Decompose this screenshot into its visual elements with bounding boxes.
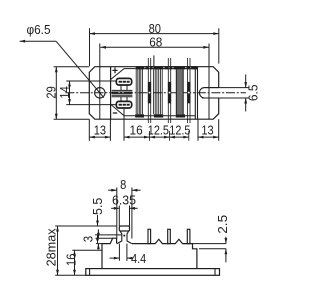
horizontal centerline (dash-dot) xyxy=(65,92,246,94)
faston terminal - (bottom tab) xyxy=(116,101,131,108)
baseplate (side view) xyxy=(86,269,220,276)
dimension 6.5 line xyxy=(244,74,247,111)
faston terminal + (top tab) xyxy=(116,78,131,85)
svg-text:6.5: 6.5 xyxy=(245,84,260,101)
svg-text:6.35: 6.35 xyxy=(112,192,136,207)
dimension 28max extension lines xyxy=(55,226,117,275)
dimension 4.4 line xyxy=(110,257,133,260)
molding seal blocks (bottom) xyxy=(135,114,185,117)
svg-text:8: 8 xyxy=(120,177,126,192)
dimension text 68 xyxy=(149,34,162,49)
molded body profile (side view) xyxy=(102,238,197,268)
bottom extension ticks xyxy=(89,108,218,141)
svg-text:14: 14 xyxy=(57,86,72,98)
svg-text:φ6.5: φ6.5 xyxy=(27,22,51,37)
housing inner top edge xyxy=(136,68,196,70)
dimension text 12.5 a xyxy=(148,122,169,137)
molded housing left edge xyxy=(110,67,112,120)
dimension 8 line xyxy=(108,189,141,192)
rib hatch band B xyxy=(153,69,162,114)
dimension 2.5 extension lines xyxy=(183,244,226,249)
pin 3 (side view) xyxy=(187,229,190,243)
dimension text 16 side xyxy=(63,254,78,266)
housing inner outline bottom-left diagonal xyxy=(111,104,136,115)
polarity mark + xyxy=(112,68,117,74)
dimension 3 line xyxy=(97,229,100,249)
dimension 28max line xyxy=(56,226,59,275)
rib band C (solid) xyxy=(176,69,183,114)
bottom dimension line 16/12.5/12.5 xyxy=(124,136,189,139)
pin 3 (top view) xyxy=(187,58,190,141)
dimension 5.5 extension lines xyxy=(95,234,122,236)
pin 2 (side view) xyxy=(168,229,171,243)
dimension 6.5 extension lines xyxy=(202,88,249,98)
housing inner bottom edge xyxy=(136,115,196,117)
dimension 29 extension lines xyxy=(54,67,90,120)
dimension 68 line xyxy=(100,46,208,49)
dimension text 13 right xyxy=(201,122,213,137)
module body outline (top view, chamfered plate) xyxy=(89,67,218,120)
pin 2 (top view) xyxy=(168,58,171,141)
right mounting slot (open, rounded end) xyxy=(199,88,218,98)
svg-text:28max: 28max xyxy=(43,228,58,266)
dimension 16 line xyxy=(73,250,76,275)
dimension text 6.5 xyxy=(245,84,260,101)
dimension 6.35 line xyxy=(111,207,138,210)
dimension text phi6.5 xyxy=(27,22,51,37)
dimension text 14 xyxy=(57,86,72,98)
dimension text 2.5 xyxy=(215,215,230,234)
svg-text:4.4: 4.4 xyxy=(131,251,146,266)
dimension 80 extension lines xyxy=(90,28,219,66)
svg-text:16: 16 xyxy=(130,122,143,137)
dimension 4.4 extension lines xyxy=(119,244,127,261)
svg-text:13: 13 xyxy=(201,122,213,137)
dimension text 5.5 xyxy=(90,198,105,215)
dimension 8 extension lines xyxy=(117,188,132,239)
svg-text:12.5: 12.5 xyxy=(148,122,169,137)
svg-text:3: 3 xyxy=(81,236,96,242)
vertical centerline through right slot / 68 extension xyxy=(208,44,210,120)
terminal stem lines xyxy=(121,85,127,101)
svg-text:13: 13 xyxy=(94,122,106,137)
polarity mark - xyxy=(113,112,117,114)
dimension 2.5 line xyxy=(225,237,228,262)
rib hatch band A xyxy=(136,69,142,114)
dimension text 4.4 xyxy=(131,251,146,266)
dimension text 16 xyxy=(130,122,143,137)
dimension 14 line xyxy=(68,81,71,105)
dimension 16 extension line xyxy=(72,249,102,251)
dimension text 80 xyxy=(149,21,161,36)
dimension text 3 xyxy=(81,236,96,242)
dimension 5.5 line xyxy=(96,215,99,243)
dimension text 13 left xyxy=(94,122,106,137)
dimension text 8 xyxy=(120,177,126,192)
molding seal band (top, with marking blocks) xyxy=(136,66,197,69)
molded housing right edge (double line) xyxy=(195,67,197,120)
dimension 3 extension lines xyxy=(96,238,113,243)
faston tab blade (side view) xyxy=(117,226,132,244)
dimension text 6.35 xyxy=(112,192,136,207)
hole diameter leader line xyxy=(20,40,104,98)
svg-text:2.5: 2.5 xyxy=(215,215,230,234)
center busbar (striped) xyxy=(112,90,133,96)
module vertical centerline stub xyxy=(153,55,155,69)
pin 1 (side view) xyxy=(148,229,151,243)
dimension text 28max xyxy=(43,228,58,266)
bottom dimension line 13 left xyxy=(89,136,110,139)
svg-text:12.5: 12.5 xyxy=(169,122,190,137)
vertical centerline through left hole / 68 extension xyxy=(99,44,101,120)
dimension 80 line xyxy=(90,32,219,35)
housing inner outline top-left diagonal xyxy=(111,69,136,80)
pin 1 (top view) xyxy=(148,58,151,141)
bottom dimension line 13 right xyxy=(198,136,219,139)
mounting hole (circle, left) xyxy=(95,88,105,98)
svg-text:68: 68 xyxy=(149,34,162,49)
svg-text:16: 16 xyxy=(63,254,78,266)
dimension 14 extension lines xyxy=(66,81,116,105)
dimension 29 line xyxy=(55,67,58,120)
dimension 6.35 extension lines xyxy=(119,206,129,227)
dimension text 12.5 b xyxy=(169,122,190,137)
svg-text:5.5: 5.5 xyxy=(90,198,105,215)
dimension text 29 xyxy=(43,86,58,98)
